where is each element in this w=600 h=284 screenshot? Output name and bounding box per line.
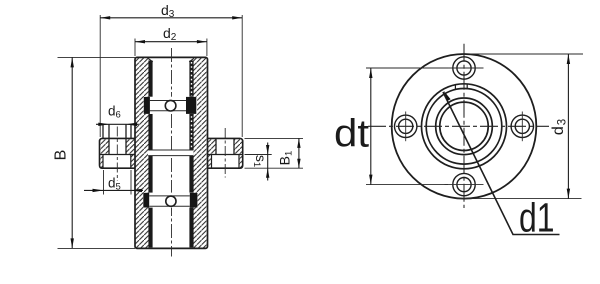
ball circle upper: [165, 100, 176, 111]
cross hole lower dark block right: [190, 193, 198, 208]
tube od circle: [426, 89, 502, 165]
ball circle lower: [166, 196, 176, 206]
plate right outline: [208, 138, 243, 168]
cross hole band lower (white window): [143, 193, 198, 208]
recess left edges: [103, 155, 131, 169]
dimension s1 (plate thickness): [245, 155, 304, 169]
tube axis centerline: [171, 48, 173, 257]
cross hole band upper (white window): [144, 97, 198, 114]
cross hole upper dark block left: [144, 97, 150, 114]
cross hole band upper borders: [150, 101, 186, 111]
bolt hole top: [457, 61, 471, 75]
plate right lower hatch slivers: [208, 155, 243, 169]
dimension d3 top: [100, 15, 242, 137]
hatch right tube wall: [194, 57, 208, 248]
top notch in hub ring: [455, 84, 467, 89]
plate left hatch upper band: [100, 138, 136, 154]
plate left mid line: [100, 154, 136, 156]
cross hole upper dark block right: [186, 97, 196, 114]
bore chamfer right: [189, 58, 194, 62]
svg-text:dt: dt: [334, 112, 369, 155]
bore circle d1: [440, 102, 488, 150]
bolt axis right (centerline): [224, 128, 226, 178]
thread band right (dark): [189, 61, 193, 248]
bolt hole bottom: [457, 178, 471, 192]
cross hole band lower borders: [149, 196, 190, 206]
plate right mid line: [208, 154, 243, 156]
flange outer circle: [392, 54, 537, 199]
boss left edges: [103, 124, 131, 138]
dimension dt (bolt circle): [366, 68, 448, 185]
bolt hole left edges: [109, 124, 126, 154]
plate left outline: [100, 138, 136, 168]
svg-text:d1: d1: [519, 194, 555, 240]
dimension d3 right: [455, 54, 583, 199]
plate right hatch upper band: [208, 138, 243, 154]
middle joint band (white): [148, 150, 194, 156]
dimension d6 (bolt hole dia): [96, 123, 139, 125]
dimension d5 (recess dia): [104, 170, 132, 195]
bolt hole left: [399, 119, 413, 133]
main vertical centerline: [463, 44, 465, 208]
main horizontal centerline: [368, 125, 549, 127]
leader arrowhead: [444, 91, 451, 101]
dimension B left: [58, 57, 136, 248]
svg-text:B: B: [53, 150, 70, 161]
tube outline: [135, 57, 208, 248]
bore chamfer circle: [436, 98, 493, 155]
leader line d1: [443, 92, 560, 235]
middle joint band borders: [148, 150, 193, 156]
thread band left (dark): [148, 61, 152, 248]
cross hole lower dark block left: [143, 193, 149, 208]
hub ring circle: [422, 84, 507, 169]
recess right edges: [212, 155, 240, 169]
plate left lower hatch slivers: [100, 155, 136, 169]
bolt axis left (centerline): [116, 127, 118, 182]
dimension d2 top: [135, 39, 207, 57]
hatch left tube wall: [135, 57, 149, 248]
bolt hole right: [515, 119, 529, 133]
bolt hole right edges: [216, 138, 234, 154]
dimension B1 (plate+boss height): [245, 137, 304, 139]
bore chamfer left: [148, 58, 153, 62]
